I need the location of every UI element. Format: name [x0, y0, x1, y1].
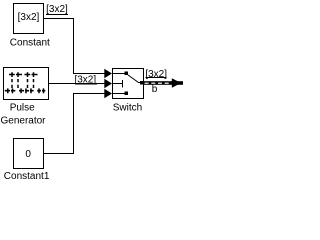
signal dimension label [3x2] on output wire: [145, 69, 167, 80]
top crossing ticks: [12, 72, 34, 77]
output wire (thick matrix signal) from Switch: [143, 81, 183, 85]
constant block Constant1: [14, 139, 44, 169]
switch block Switch: [113, 69, 144, 99]
white dash pattern on output wire: [145, 83, 169, 84]
baseline bars: [5, 90, 46, 92]
wire from Constant1 to Switch input 3: [43, 94, 106, 154]
switch icon: control input stub with tick: [113, 83, 123, 85]
pulse waveform icon (dashed square wave): [5, 72, 46, 93]
svg-text:Switch: Switch: [113, 103, 142, 114]
svg-text:0: 0: [25, 149, 31, 160]
signal dimension label [3x2] on Constant output: [46, 4, 68, 15]
wire from Constant to Switch input 1: [43, 19, 106, 74]
switch icon: output port dot: [140, 81, 144, 85]
arrowhead into Switch input 1: [104, 69, 112, 78]
vertical edge dashes: [12, 79, 34, 88]
arrowhead into Switch control input: [104, 79, 112, 88]
signal dimension label [3x2] on Pulse Generator wire: [74, 75, 96, 86]
arrowhead into Switch input 3: [104, 89, 112, 98]
arrowhead on output wire: [172, 78, 181, 88]
svg-text:Constant1: Constant1: [4, 171, 50, 182]
svg-text:Pulse: Pulse: [10, 103, 35, 114]
svg-text:[3x2]: [3x2]: [18, 12, 40, 23]
wire from Pulse Generator to Switch control input: [49, 83, 107, 85]
svg-text:Constant: Constant: [10, 38, 50, 49]
svg-text:b: b: [152, 84, 158, 95]
svg-text:Generator: Generator: [0, 115, 46, 126]
svg-text:[3x2]: [3x2]: [145, 69, 167, 80]
pulse generator block Pulse Generator: [4, 68, 49, 100]
switch icon: selector arm diagonal to output: [128, 75, 143, 83]
switch icon: input 3 stub and port dot: [113, 93, 126, 95]
svg-text:[3x2]: [3x2]: [46, 4, 68, 15]
switch icon: input 1 stub and port dot: [113, 73, 126, 75]
top plateau bars: [9, 74, 38, 76]
baseline crossing ticks: [8, 88, 44, 93]
constant block Constant: [14, 4, 44, 34]
